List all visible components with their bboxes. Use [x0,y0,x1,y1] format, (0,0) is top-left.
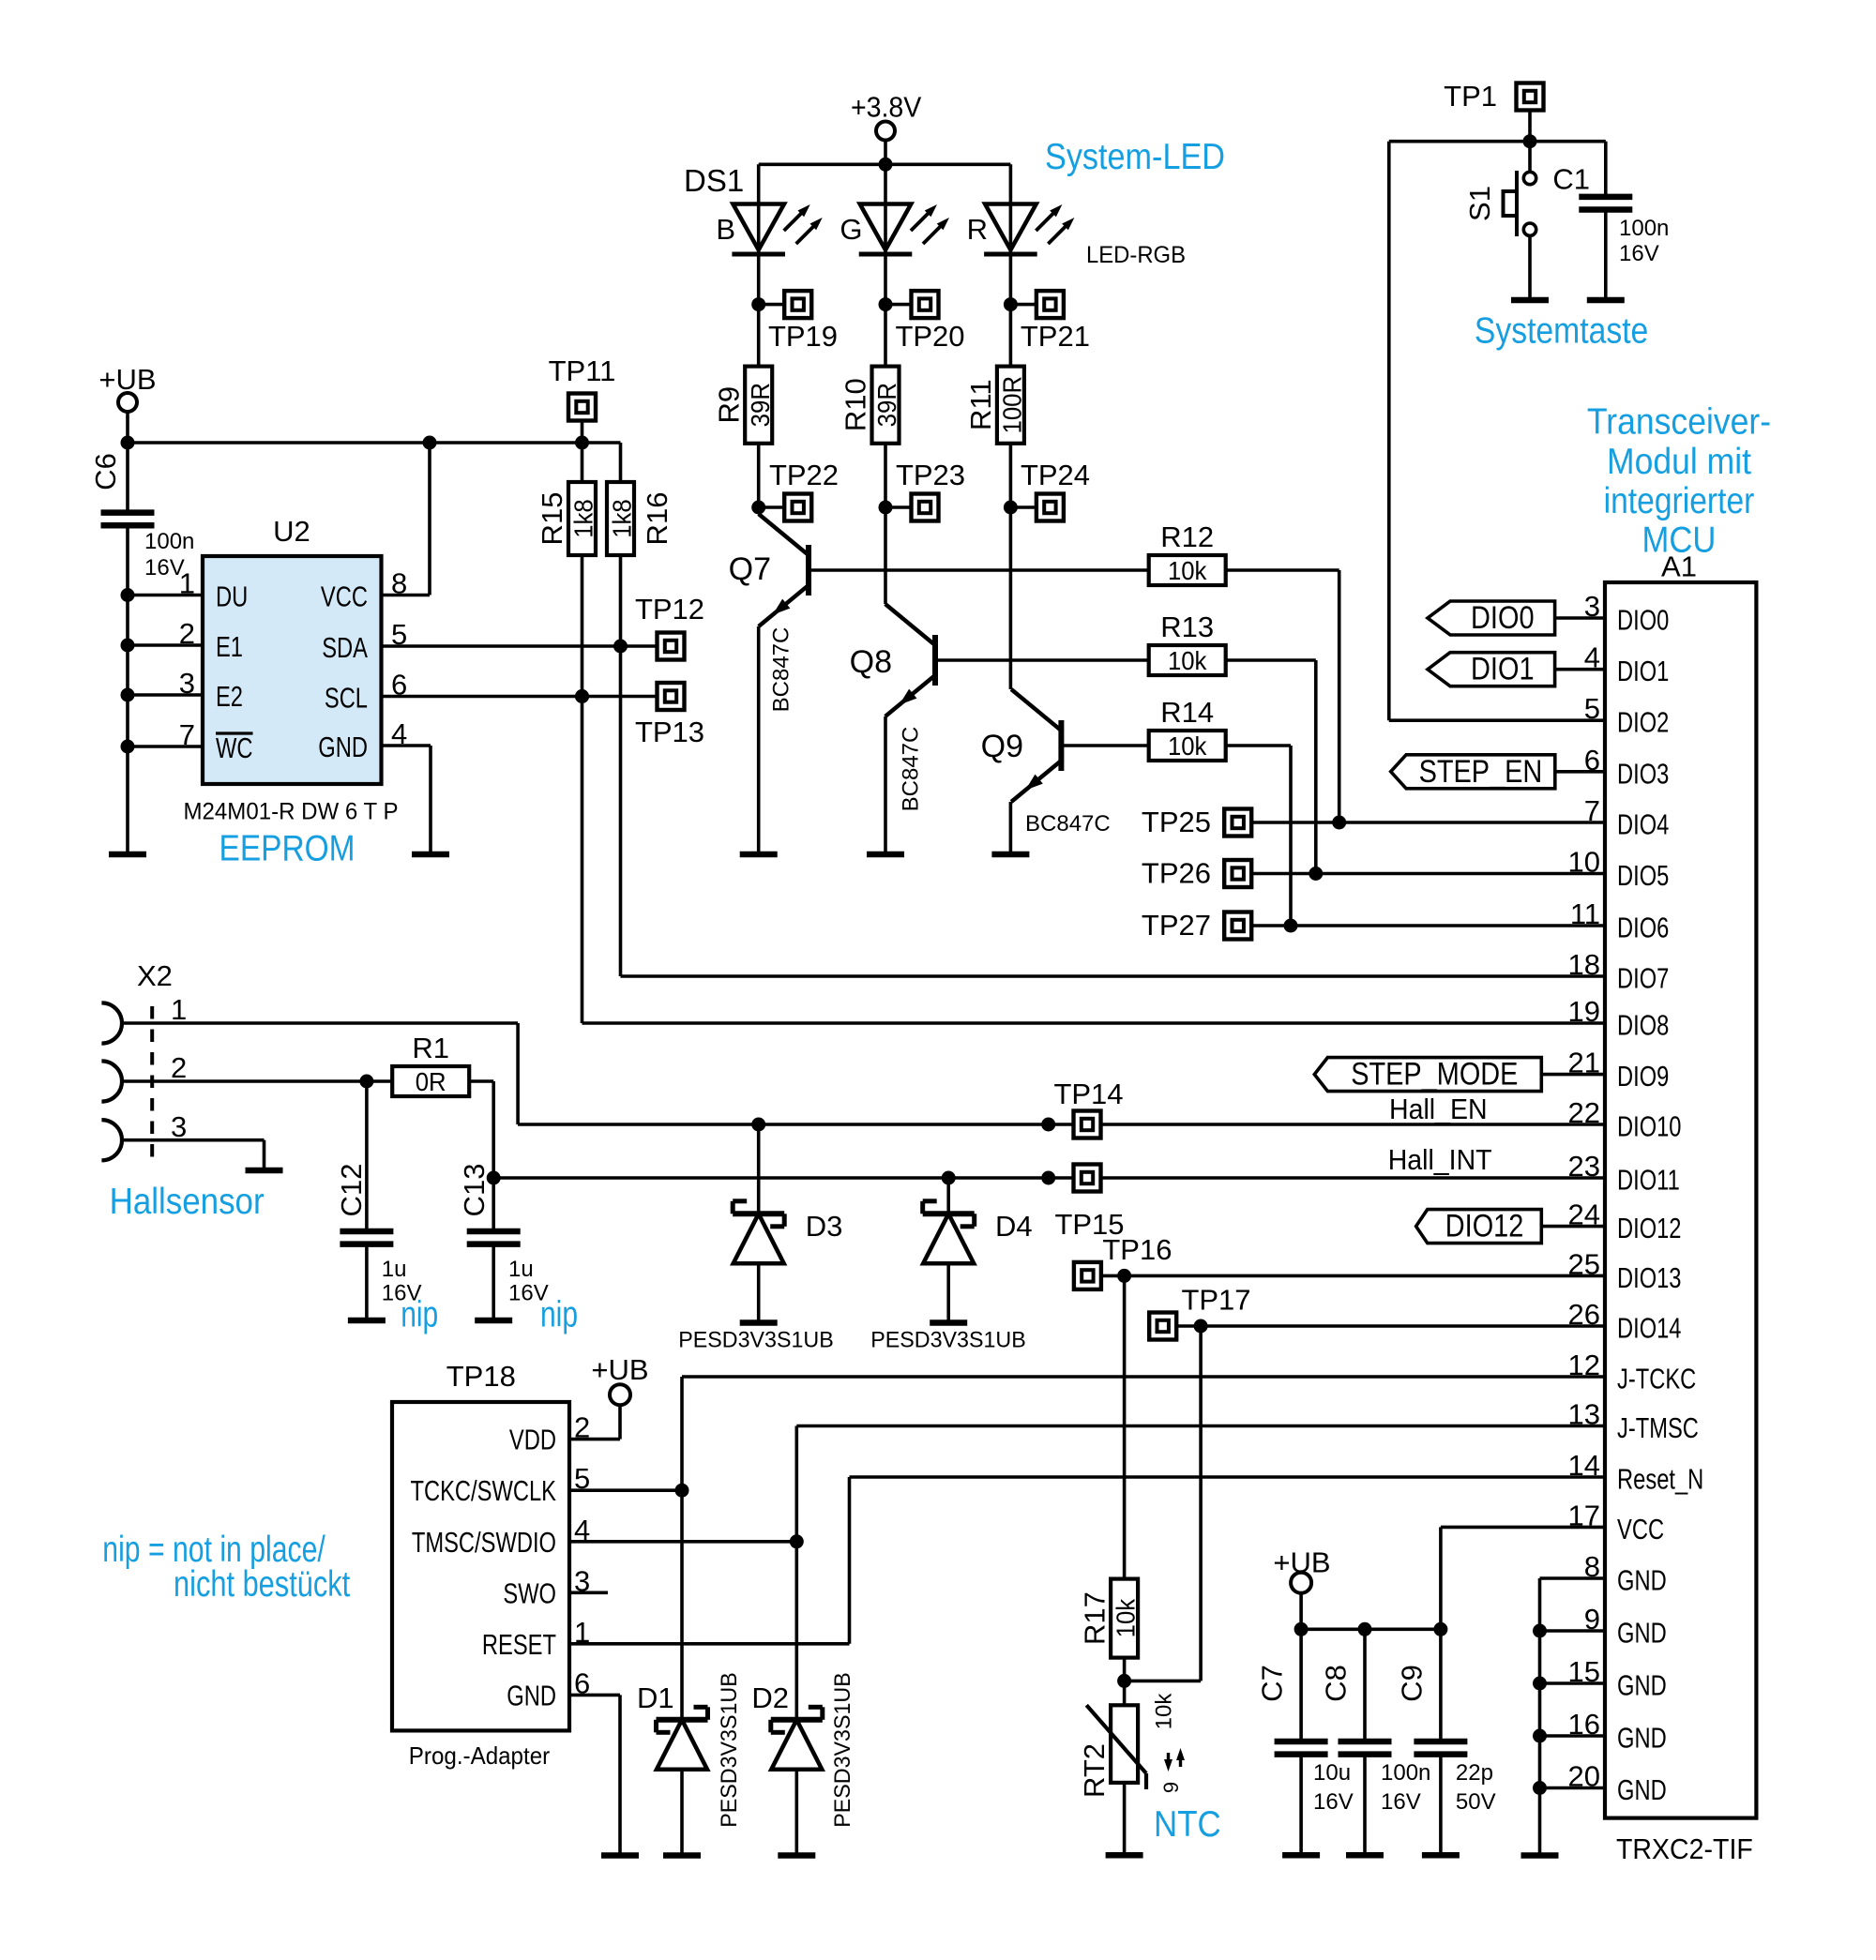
svg-text:WC: WC [216,731,253,764]
svg-text:10k: 10k [1152,1693,1177,1730]
svg-text:C9: C9 [1395,1665,1428,1702]
svg-text:TP16: TP16 [1102,1233,1172,1266]
svg-text:C6: C6 [89,453,122,490]
svg-text:J-TCKC: J-TCKC [1617,1363,1696,1395]
svg-text:B: B [716,213,735,246]
svg-text:1u: 1u [382,1257,407,1282]
svg-text:Systemtaste: Systemtaste [1475,310,1648,351]
svg-text:R17: R17 [1078,1591,1111,1645]
svg-text:R11: R11 [964,379,997,430]
svg-text:DIO12: DIO12 [1445,1209,1524,1244]
svg-text:10k: 10k [1112,1598,1141,1637]
svg-text:DIO10: DIO10 [1617,1110,1682,1143]
svg-text:VCC: VCC [321,580,368,613]
svg-text:TP27: TP27 [1142,909,1211,942]
svg-text:10k: 10k [1168,646,1207,675]
svg-text:DIO2: DIO2 [1617,706,1669,739]
svg-text:16V: 16V [1619,241,1659,266]
svg-text:+3.8V: +3.8V [851,90,922,123]
svg-text:DIO1: DIO1 [1471,652,1535,687]
svg-text:1u: 1u [508,1257,534,1282]
svg-text:E1: E1 [216,630,243,663]
svg-text:TP20: TP20 [895,320,964,353]
svg-text:Hallsensor: Hallsensor [110,1182,265,1222]
svg-text:SWO: SWO [503,1576,556,1609]
svg-text:SDA: SDA [322,631,368,664]
svg-text:DIO0: DIO0 [1617,604,1669,637]
svg-text:2: 2 [171,1051,187,1084]
svg-text:GND: GND [1617,1617,1667,1650]
svg-text:LED-RGB: LED-RGB [1086,242,1186,268]
svg-text:C7: C7 [1256,1665,1289,1702]
svg-text:Modul mit: Modul mit [1607,442,1751,482]
svg-text:1: 1 [179,567,195,600]
svg-text:R12: R12 [1160,520,1214,553]
svg-text:Reset_N: Reset_N [1617,1463,1703,1496]
svg-text:R: R [967,213,988,246]
svg-text:TP25: TP25 [1142,806,1211,838]
svg-text:100R: 100R [997,376,1026,434]
svg-text:STEP_EN: STEP_EN [1419,754,1543,790]
svg-text:DIO9: DIO9 [1617,1060,1669,1093]
svg-text:10k: 10k [1168,556,1207,585]
svg-text:C12: C12 [335,1164,368,1217]
svg-text:TP23: TP23 [896,459,965,491]
svg-text:19: 19 [1568,995,1600,1028]
svg-text:1k8: 1k8 [569,499,598,538]
svg-text:3: 3 [171,1110,187,1143]
svg-text:C13: C13 [458,1164,491,1217]
svg-text:DIO3: DIO3 [1617,757,1669,790]
svg-text:PESD3V3S1UB: PESD3V3S1UB [678,1328,834,1353]
svg-text:DIO7: DIO7 [1617,962,1669,995]
svg-text:TP17: TP17 [1181,1284,1250,1317]
svg-text:TP13: TP13 [635,716,704,748]
svg-text:nicht bestückt: nicht bestückt [174,1564,350,1605]
svg-text:D4: D4 [995,1210,1033,1243]
svg-text:GND: GND [507,1679,556,1711]
svg-text:100n: 100n [144,529,194,554]
svg-text:DIO13: DIO13 [1617,1261,1682,1294]
svg-text:DIO5: DIO5 [1617,859,1669,892]
svg-text:NTC: NTC [1154,1804,1221,1845]
svg-text:TP26: TP26 [1142,857,1211,890]
svg-text:9: 9 [1159,1782,1183,1793]
svg-text:TP21: TP21 [1021,320,1090,353]
svg-text:Hall_INT: Hall_INT [1388,1143,1492,1176]
svg-text:A1: A1 [1661,550,1697,582]
svg-text:10u: 10u [1313,1760,1351,1786]
svg-text:1: 1 [171,993,187,1026]
svg-text:GND: GND [1617,1722,1667,1755]
svg-text:R9: R9 [712,386,745,424]
svg-text:TCKC/SWCLK: TCKC/SWCLK [411,1474,557,1507]
svg-text:STEP_MODE: STEP_MODE [1351,1057,1518,1093]
svg-text:DIO8: DIO8 [1617,1009,1669,1042]
svg-text:BC847C: BC847C [1025,811,1111,837]
svg-text:DIO6: DIO6 [1617,912,1669,944]
svg-text:GND: GND [1617,1773,1667,1806]
svg-text:39R: 39R [746,383,775,427]
svg-text:GND: GND [1617,1564,1667,1597]
svg-text:R16: R16 [641,492,673,546]
svg-text:3: 3 [179,667,195,700]
svg-text:RT2: RT2 [1078,1743,1111,1798]
svg-text:16V: 16V [1381,1789,1421,1815]
svg-text:integrierter: integrierter [1604,481,1755,521]
svg-text:18: 18 [1568,948,1600,981]
svg-text:16V: 16V [1313,1789,1354,1815]
svg-text:M24M01-R DW 6 T P: M24M01-R DW 6 T P [184,798,399,824]
svg-text:DIO4: DIO4 [1617,808,1669,841]
svg-text:GND: GND [318,731,368,763]
svg-text:R1: R1 [412,1032,449,1064]
svg-text:nip: nip [540,1295,578,1335]
svg-text:TP14: TP14 [1053,1078,1123,1110]
svg-text:D1: D1 [637,1681,674,1714]
svg-text:TP11: TP11 [549,354,616,387]
svg-text:10: 10 [1568,846,1600,879]
svg-text:TRXC2-TIF: TRXC2-TIF [1616,1832,1753,1865]
svg-text:5: 5 [391,618,407,651]
svg-text:C8: C8 [1319,1665,1352,1702]
svg-text:DIO12: DIO12 [1617,1212,1682,1244]
svg-text:1k8: 1k8 [608,499,637,538]
svg-text:PESD3V3S1UB: PESD3V3S1UB [870,1328,1026,1353]
svg-text:+UB: +UB [591,1353,648,1386]
svg-text:4: 4 [391,717,407,750]
svg-text:PESD3V3S1UB: PESD3V3S1UB [717,1672,742,1828]
svg-text:SCL: SCL [325,682,368,715]
svg-text:VDD: VDD [509,1424,556,1456]
svg-text:C1: C1 [1552,163,1590,196]
svg-text:100n: 100n [1381,1760,1430,1786]
svg-text:TP24: TP24 [1021,459,1090,491]
svg-text:Q9: Q9 [981,729,1023,764]
svg-text:nip: nip [401,1295,438,1335]
svg-text:D2: D2 [751,1681,789,1714]
svg-text:R10: R10 [840,378,872,431]
svg-text:7: 7 [179,718,195,751]
svg-text:TP12: TP12 [635,593,704,626]
svg-text:7: 7 [1584,794,1600,827]
svg-text:DIO11: DIO11 [1617,1164,1680,1197]
svg-text:Hall_EN: Hall_EN [1389,1093,1488,1125]
svg-text:BC847C: BC847C [899,727,924,812]
svg-text:DIO14: DIO14 [1617,1312,1682,1345]
svg-text:0R: 0R [416,1067,446,1096]
svg-text:VCC: VCC [1617,1513,1664,1545]
svg-text:DU: DU [216,580,248,613]
svg-text:E2: E2 [216,680,243,713]
svg-text:U2: U2 [273,515,310,548]
svg-text:R14: R14 [1160,696,1214,729]
svg-text:TP18: TP18 [446,1360,516,1393]
svg-text:TP19: TP19 [768,320,838,353]
svg-text:Prog.-Adapter: Prog.-Adapter [409,1741,551,1770]
svg-text:EEPROM: EEPROM [219,828,356,868]
svg-text:8: 8 [391,567,407,600]
svg-text:R13: R13 [1160,611,1214,643]
svg-text:S1: S1 [1463,186,1496,221]
svg-text:+UB: +UB [98,363,156,396]
svg-text:2: 2 [179,617,195,650]
svg-text:10k: 10k [1168,731,1207,761]
svg-text:PESD3V3S1UB: PESD3V3S1UB [830,1672,855,1828]
svg-text:RESET: RESET [482,1628,556,1661]
svg-text:DS1: DS1 [684,163,744,198]
svg-text:Q8: Q8 [850,644,892,680]
svg-text:GND: GND [1617,1669,1667,1702]
svg-text:22p: 22p [1456,1760,1493,1786]
svg-text:J-TMSC: J-TMSC [1617,1411,1699,1444]
svg-text:DIO0: DIO0 [1471,600,1535,636]
svg-text:System-LED: System-LED [1045,137,1225,177]
svg-text:TP1: TP1 [1444,80,1497,113]
svg-text:+UB: +UB [1273,1546,1330,1579]
svg-text:X2: X2 [137,959,173,992]
svg-text:Q7: Q7 [729,551,771,587]
svg-text:DIO1: DIO1 [1617,655,1669,687]
svg-text:BC847C: BC847C [769,627,794,713]
svg-text:G: G [840,213,862,246]
svg-text:D3: D3 [806,1210,843,1243]
svg-text:100n: 100n [1619,216,1669,241]
svg-text:TP22: TP22 [769,459,839,491]
svg-text:6: 6 [391,669,407,701]
svg-text:R15: R15 [536,492,568,546]
svg-text:39R: 39R [872,383,901,427]
svg-text:TMSC/SWDIO: TMSC/SWDIO [412,1526,556,1559]
svg-text:11: 11 [1570,897,1600,930]
svg-text:50V: 50V [1456,1789,1496,1815]
svg-text:Transceiver-: Transceiver- [1587,401,1771,442]
